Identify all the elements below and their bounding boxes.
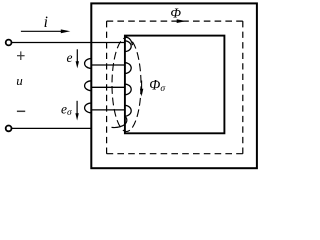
svg-text:Φ: Φ — [170, 7, 181, 22]
svg-text:u: u — [16, 73, 23, 88]
coil right bump 4 — [125, 105, 131, 116]
wire top (terminal to coil) — [12, 42, 125, 44]
svg-text:e: e — [67, 50, 73, 65]
coil left bump 1 — [85, 59, 92, 69]
emf arrow e (down) — [76, 49, 79, 68]
coil right bump 1 — [125, 41, 131, 52]
terminal bottom — [6, 125, 12, 131]
current arrow — [21, 29, 70, 33]
flux path Phi (dashed rectangle) — [107, 21, 243, 154]
coil left bump 3 — [85, 103, 92, 113]
wire turn 3 — [91, 86, 125, 88]
label minus — [17, 110, 25, 112]
svg-text:i: i — [44, 14, 48, 31]
core outer boundary — [91, 3, 257, 168]
coil right bump 3 — [125, 84, 131, 95]
coil right bump 2 — [125, 63, 131, 74]
core inner boundary (window) — [125, 36, 224, 134]
main flux arrow (right, on dashed line) — [177, 19, 187, 23]
coil exit arc (bottom) — [112, 116, 127, 127]
wire bottom (terminal to core) — [12, 127, 92, 129]
wire turn 4 — [91, 109, 125, 111]
coil left bump 2 — [85, 81, 92, 91]
wire turn 2 — [91, 64, 125, 66]
label + — [17, 51, 25, 60]
coil entry arc (top) — [125, 37, 133, 46]
leakage flux arrow (down) — [140, 81, 143, 97]
terminal top — [6, 40, 12, 46]
emf arrow e_sigma (down) — [75, 101, 78, 121]
leakage flux ellipse (dashed) — [112, 38, 141, 132]
